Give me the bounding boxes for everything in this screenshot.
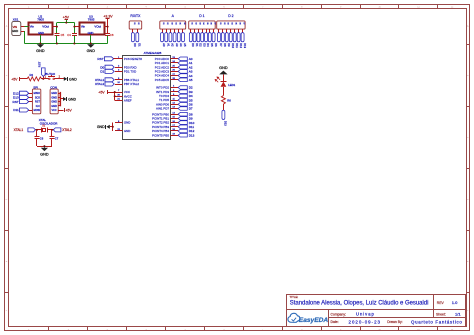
svg-text:PC6 RESET#: PC6 RESET#	[124, 57, 142, 61]
svg-text:7805: 7805	[88, 18, 95, 22]
svg-text:VCC: VCC	[51, 109, 56, 112]
svg-text:GND: GND	[87, 49, 96, 53]
svg-text:04: 04	[175, 22, 177, 24]
svg-text:D7: D7	[219, 43, 223, 47]
svg-text:REV: REV	[437, 301, 445, 305]
svg-text:05: 05	[206, 22, 208, 24]
svg-text:D1: D1	[138, 43, 142, 47]
svg-text:1/1: 1/1	[455, 312, 461, 317]
svg-text:TITLE:: TITLE:	[290, 295, 299, 299]
svg-text:C5: C5	[61, 33, 65, 37]
svg-text:C6: C6	[40, 137, 44, 141]
svg-text:7: 7	[118, 90, 120, 92]
svg-text:B: B	[6, 75, 8, 77]
svg-text:06: 06	[239, 22, 241, 24]
svg-text:XTAL1: XTAL1	[14, 128, 24, 132]
svg-text:10: 10	[117, 82, 120, 84]
svg-text:D0: D0	[133, 43, 137, 47]
svg-text:F: F	[6, 310, 8, 312]
svg-text:D6: D6	[214, 43, 218, 47]
svg-text:RST: RST	[97, 57, 103, 61]
svg-text:Standalone Alessia, Olopes, Lu: Standalone Alessia, Olopes, Luiz Cláudio…	[290, 301, 429, 307]
svg-text:SCK: SCK	[35, 96, 40, 99]
svg-text:D11: D11	[13, 108, 19, 112]
svg-text:D: D	[6, 199, 8, 201]
svg-text:PC5 ADC5: PC5 ADC5	[155, 78, 170, 82]
svg-text:XTAL2: XTAL2	[95, 82, 105, 86]
svg-text:PCINT5 PB5: PCINT5 PB5	[152, 133, 169, 137]
svg-text:01: 01	[133, 22, 135, 24]
svg-text:A0: A0	[162, 43, 166, 47]
svg-text:02: 02	[223, 22, 225, 24]
svg-text:Date:: Date:	[331, 320, 339, 324]
svg-text:D1: D1	[195, 43, 199, 47]
svg-text:C4: C4	[67, 33, 71, 37]
svg-text:Vin: Vin	[81, 25, 86, 29]
svg-text:Univap: Univap	[356, 312, 375, 317]
svg-text:D8: D8	[223, 43, 227, 47]
svg-text:ATMEGA328: ATMEGA328	[144, 51, 162, 55]
svg-text:05: 05	[179, 22, 181, 24]
svg-text:GND: GND	[88, 31, 94, 35]
svg-text:D11: D11	[235, 43, 239, 48]
svg-text:XTAL2: XTAL2	[62, 128, 72, 132]
svg-text:E: E	[467, 261, 469, 263]
svg-text:D2: D2	[199, 43, 203, 47]
svg-text:C8: C8	[110, 33, 114, 37]
svg-text:GND: GND	[36, 49, 45, 53]
svg-text:03: 03	[198, 22, 200, 24]
svg-text:MISO: MISO	[34, 92, 40, 95]
svg-text:02: 02	[137, 22, 139, 24]
svg-text:GND: GND	[124, 121, 131, 125]
svg-text:PD1 TXD: PD1 TXD	[124, 70, 136, 74]
svg-text:D5: D5	[210, 43, 214, 47]
svg-text:06: 06	[183, 22, 185, 24]
svg-text:GND: GND	[40, 153, 49, 157]
svg-text:VOut: VOut	[42, 25, 49, 29]
svg-text:R6: R6	[227, 98, 231, 102]
svg-text:02: 02	[195, 22, 197, 24]
svg-text:Quarteto Fantástico: Quarteto Fantástico	[411, 319, 462, 324]
svg-text:04: 04	[202, 22, 204, 24]
svg-text:VIN: VIN	[13, 25, 18, 29]
svg-text:EasyEDA: EasyEDA	[299, 317, 329, 324]
svg-text:D12: D12	[239, 43, 243, 48]
svg-text:06: 06	[210, 22, 212, 24]
svg-text:01: 01	[219, 22, 221, 24]
svg-text:01: 01	[162, 22, 164, 24]
svg-text:GND: GND	[68, 97, 76, 101]
svg-text:Drawn By:: Drawn By:	[387, 320, 402, 324]
svg-text:+5V: +5V	[98, 90, 105, 94]
svg-text:D13: D13	[243, 43, 247, 48]
svg-text:02: 02	[166, 22, 168, 24]
svg-text:F: F	[467, 310, 469, 312]
svg-text:03: 03	[170, 22, 172, 24]
svg-text:D7: D7	[189, 107, 193, 111]
svg-text:BUTAO: BUTAO	[45, 72, 55, 76]
svg-text:C: C	[467, 137, 469, 139]
svg-text:A: A	[467, 25, 469, 28]
svg-text:07: 07	[243, 22, 245, 24]
svg-text:A: A	[172, 14, 175, 18]
svg-text:GND: GND	[97, 125, 105, 129]
svg-text:C: C	[6, 137, 8, 139]
svg-text:GND: GND	[38, 31, 44, 35]
svg-text:D10: D10	[231, 43, 235, 48]
svg-text:RST: RST	[13, 100, 19, 104]
svg-text:05: 05	[235, 22, 237, 24]
svg-text:A1: A1	[166, 43, 170, 47]
svg-text:N.C: N.C	[36, 105, 41, 108]
svg-text:D1: D1	[100, 70, 104, 74]
svg-text:D13: D13	[189, 133, 195, 137]
svg-text:GND: GND	[124, 129, 131, 133]
svg-text:07: 07	[214, 22, 216, 24]
svg-text:A5: A5	[183, 43, 187, 47]
svg-text:01: 01	[191, 22, 193, 24]
svg-text:+5V: +5V	[65, 108, 72, 112]
svg-text:2020-09-23: 2020-09-23	[349, 319, 381, 324]
svg-text:RX/TX: RX/TX	[130, 14, 141, 18]
svg-text:GND: GND	[51, 101, 57, 104]
svg-text:RST: RST	[38, 61, 42, 67]
svg-text:MOSI: MOSI	[34, 109, 41, 112]
svg-text:+5V: +5V	[63, 15, 70, 19]
svg-text:E: E	[6, 261, 8, 263]
svg-text:GND: GND	[51, 96, 57, 99]
svg-text:RST: RST	[35, 101, 40, 104]
svg-text:A3: A3	[175, 43, 179, 47]
svg-text:GND: GND	[51, 92, 57, 95]
svg-text:1.0: 1.0	[452, 300, 458, 305]
svg-text:D9: D9	[227, 43, 231, 47]
svg-text:04: 04	[231, 22, 233, 24]
svg-text:7805: 7805	[37, 18, 44, 22]
svg-text:D0: D0	[191, 43, 195, 47]
svg-text:GND: GND	[51, 105, 57, 108]
svg-text:D3: D3	[202, 43, 206, 47]
svg-text:GND: GND	[69, 77, 77, 81]
svg-text:D 1: D 1	[199, 14, 204, 18]
svg-text:B: B	[467, 75, 469, 77]
svg-text:AIN1 PD7: AIN1 PD7	[156, 107, 169, 111]
svg-text:03: 03	[227, 22, 229, 24]
svg-text:XS1: XS1	[13, 17, 19, 21]
svg-text:D 2: D 2	[228, 14, 233, 18]
svg-text:C7: C7	[55, 137, 59, 141]
svg-text:Sheet:: Sheet:	[436, 312, 446, 316]
svg-text:D: D	[467, 199, 469, 201]
svg-text:LED1: LED1	[228, 83, 235, 87]
svg-text:D4: D4	[206, 43, 210, 47]
svg-text:D13: D13	[224, 121, 228, 126]
svg-text:VOut: VOut	[94, 25, 101, 29]
svg-text:A2: A2	[171, 43, 175, 47]
svg-text:Vin: Vin	[30, 25, 35, 29]
svg-text:+5V: +5V	[11, 77, 18, 81]
svg-text:Company:: Company:	[331, 312, 347, 316]
svg-text:+3.3V: +3.3V	[103, 15, 113, 19]
svg-text:A4: A4	[179, 43, 183, 47]
svg-text:A: A	[6, 25, 8, 28]
svg-text:A5: A5	[189, 78, 193, 82]
svg-text:AREF: AREF	[124, 99, 132, 103]
svg-text:PB7 XTAL2: PB7 XTAL2	[124, 82, 139, 86]
svg-text:GND: GND	[219, 66, 228, 70]
svg-text:GND: GND	[12, 29, 18, 33]
svg-text:R2: R2	[30, 73, 34, 77]
